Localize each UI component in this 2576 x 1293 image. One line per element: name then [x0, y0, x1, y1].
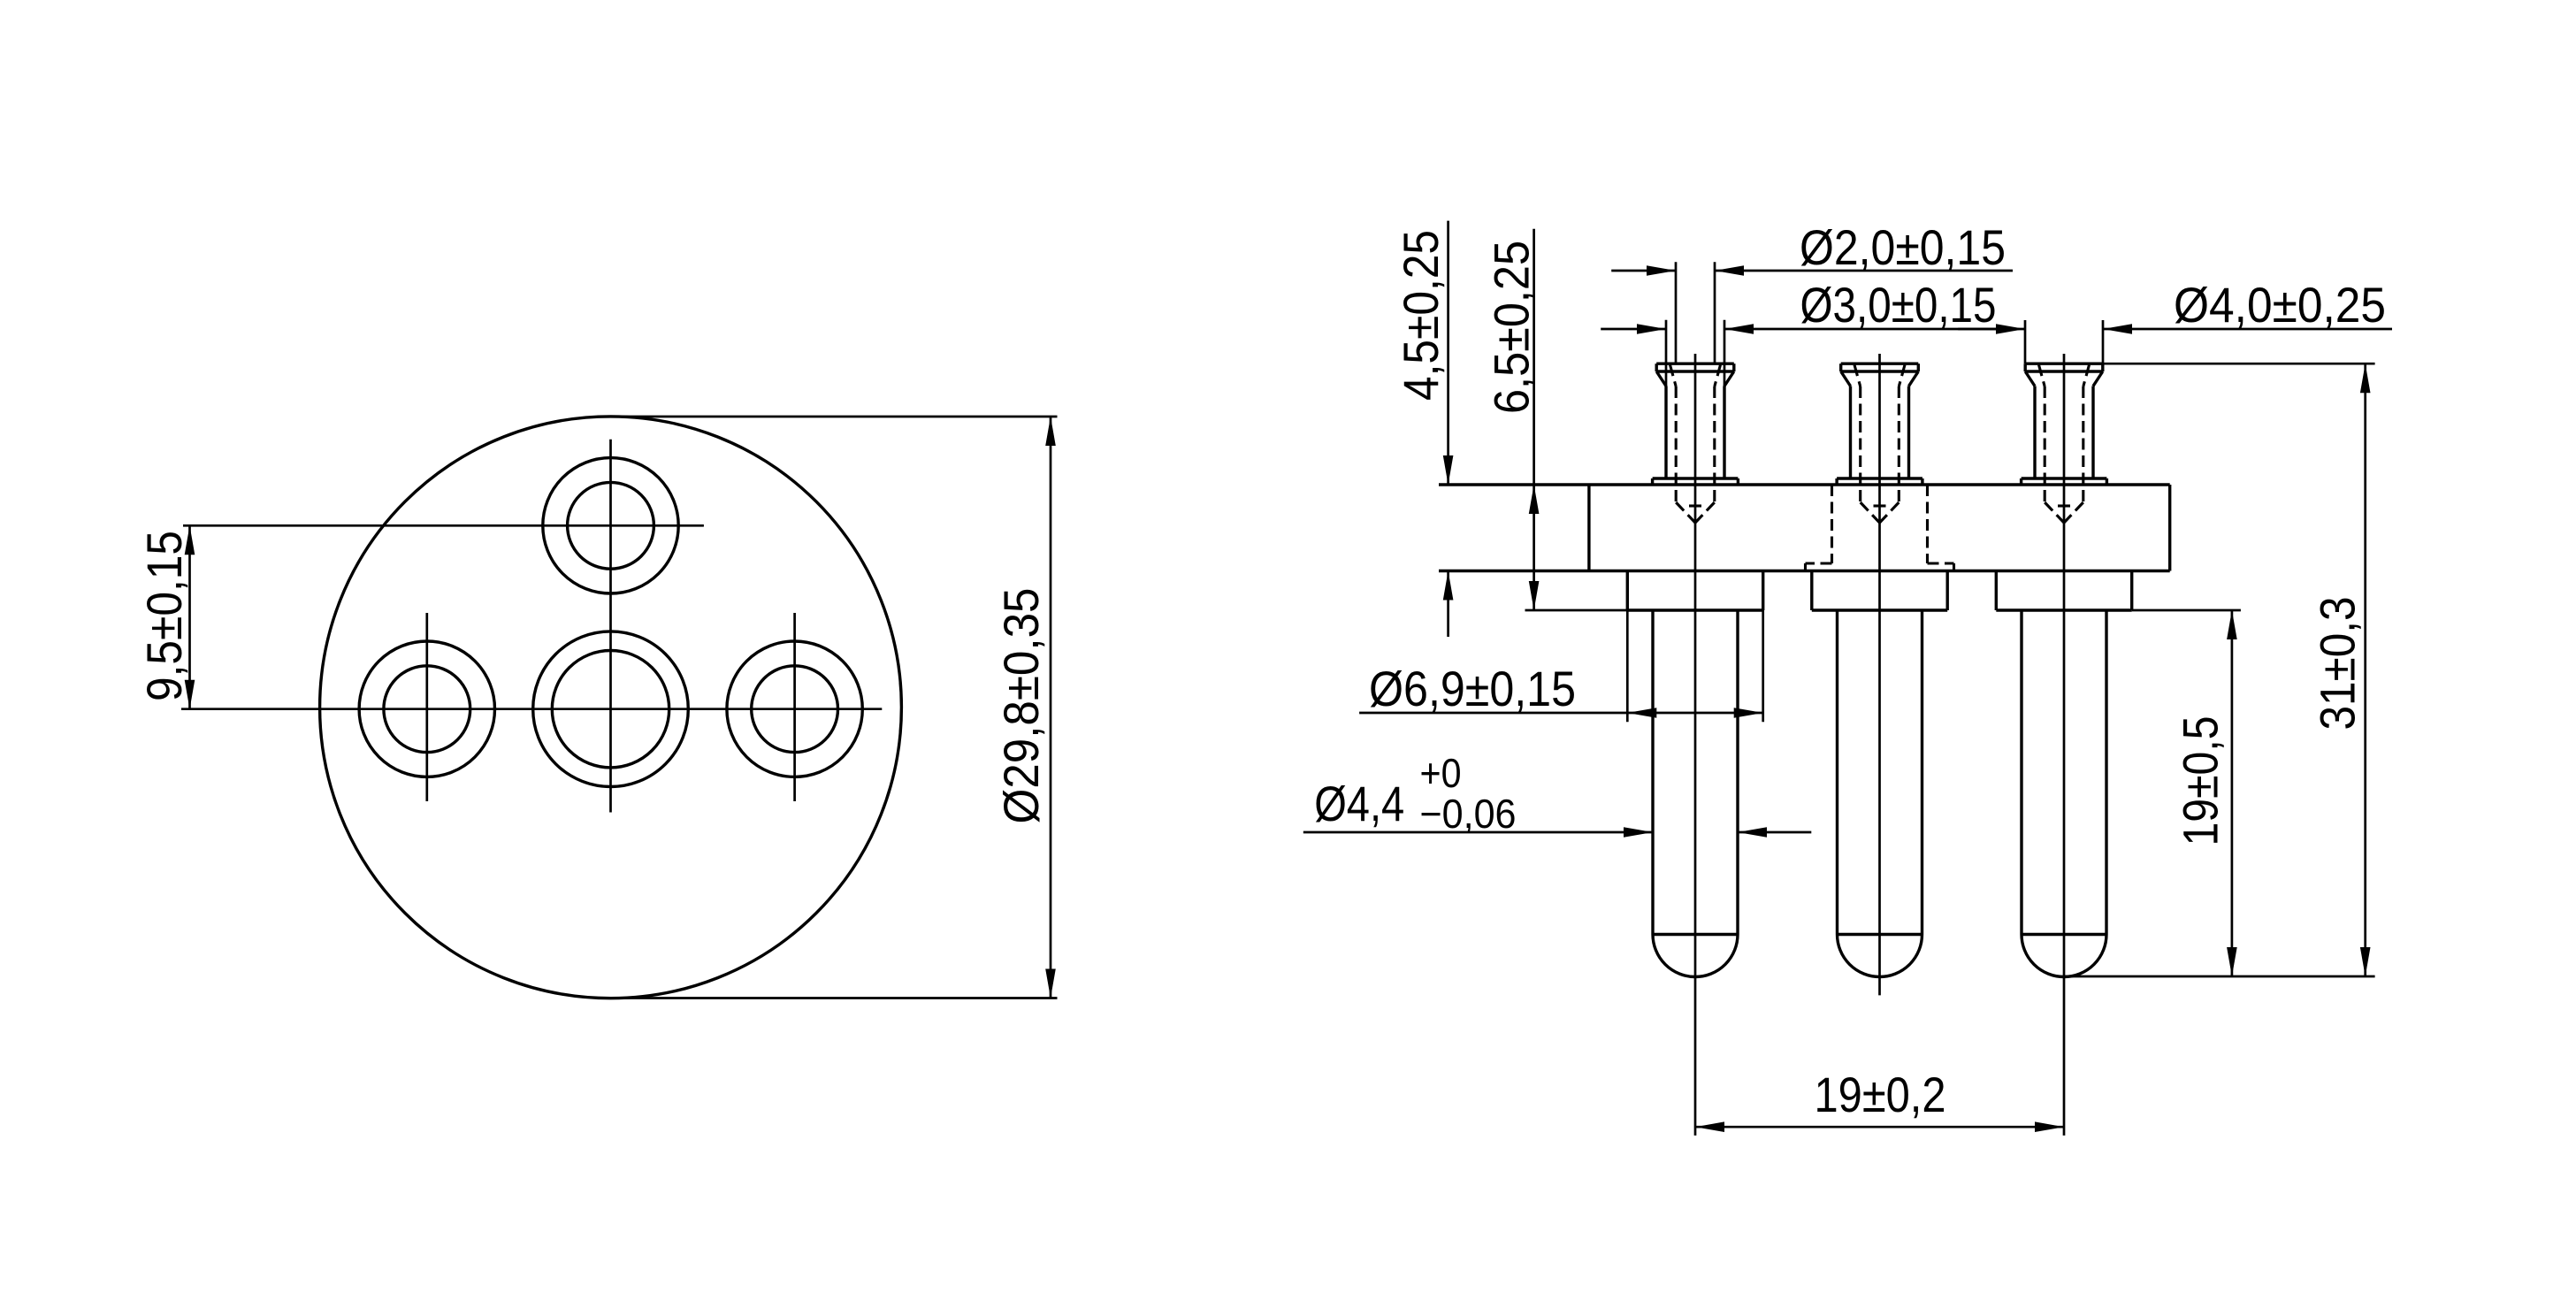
arrow Ø2.0 left	[1647, 265, 1676, 276]
svg-text:19±0,2: 19±0,2	[1815, 1067, 1946, 1122]
dimension line 4.5 lower segment	[1447, 571, 1449, 638]
arrow 19±0.2 right	[2035, 1121, 2064, 1132]
pin 2 upper pin (head, cone, shaft, collar)	[1841, 363, 1919, 365]
extension lines Ø4.0	[2024, 320, 2027, 363]
arrow Ø29.8 top	[1045, 417, 1056, 446]
pin 1 upper pin (head, cone, shaft, collar)	[1656, 363, 1734, 365]
left hole outer circle	[359, 641, 494, 777]
pin 1 shelf boss	[1626, 571, 1629, 611]
pin 3 lower pin body with rounded tip	[2020, 610, 2022, 935]
pin 2 centerline	[1878, 354, 1881, 995]
pin 3 shelf shelf-bottom right extension line	[2132, 609, 2241, 612]
svg-text:Ø2,0±0,15: Ø2,0±0,15	[1800, 219, 2006, 275]
svg-text:Ø4,4: Ø4,4	[1314, 776, 1404, 831]
dimension line Ø29.8±0.35	[1050, 417, 1052, 998]
top hole inner circle	[568, 482, 654, 569]
pin 3 upper pin (head, cone, shaft, collar)	[2025, 363, 2103, 365]
svg-text:Ø3,0±0,15: Ø3,0±0,15	[1800, 277, 1997, 333]
dimension line Ø4.0 left tail	[1958, 328, 2025, 331]
center hole inner circle	[552, 651, 669, 768]
plate left edge	[1587, 485, 1590, 571]
top hole outer circle	[543, 458, 678, 593]
left hole inner circle	[384, 666, 470, 753]
dimension line 19±0.5	[2231, 610, 2234, 976]
dimension line Ø2.0 right tail	[1715, 270, 2013, 272]
svg-text:6,5±0,25: 6,5±0,25	[1483, 241, 1539, 414]
dimension line Ø3.0 left tail	[1601, 328, 1666, 331]
right hole inner circle	[752, 666, 838, 753]
flange outer circle (left view)	[320, 417, 902, 998]
dimension line 4.5 upper segment	[1447, 221, 1449, 485]
right hole vertical centerline	[793, 613, 796, 801]
arrow 19±0.5 top	[2227, 610, 2237, 639]
dimension line 19±0.2	[1695, 1126, 2064, 1129]
pin 1 shelf shelf-bottom left extension line	[1525, 609, 1628, 612]
extension lines Ø3.0	[1665, 320, 1668, 386]
arrow 6.5 at plate top	[1529, 485, 1540, 514]
svg-text:9,5±0,15: 9,5±0,15	[136, 531, 192, 701]
pin 3 centerline	[2063, 354, 2066, 1136]
middle row horizontal centerline / extension for 9.5 dim	[181, 708, 882, 710]
svg-text:31±0,3: 31±0,3	[2309, 597, 2365, 731]
arrow 9.5 top	[185, 525, 195, 555]
arrow Ø29.8 bottom	[1045, 969, 1056, 998]
dimension line 31±0.3	[2364, 363, 2366, 976]
arrow Ø4.0 right	[2103, 324, 2132, 334]
extension line pin head top right	[2103, 363, 2375, 365]
arrow 19±0.2 left	[1695, 1121, 1724, 1132]
extension line circle bottom	[611, 997, 1058, 999]
top hole horizontal centerline / extension for 9.5 dim	[183, 524, 704, 527]
dimension line 9.5±0.15	[188, 525, 191, 708]
right hole outer circle	[727, 641, 862, 777]
arrow 9.5 bottom	[185, 680, 195, 709]
left hole vertical centerline	[425, 613, 428, 801]
pin 3 hidden hole outline (dashed)	[2039, 365, 2045, 387]
dimension line Ø6.9	[1359, 712, 1763, 715]
arrow Ø6.9 right	[1734, 708, 1763, 718]
arrow Ø4.4 left	[1624, 827, 1653, 838]
pin 1 centerline	[1694, 354, 1697, 1136]
dimension line Ø2.0 left tail	[1611, 270, 1676, 272]
arrow Ø2.0 right	[1715, 265, 1744, 276]
extension lines Ø2.0	[1675, 262, 1678, 363]
dimension line Ø4.4 right tail	[1738, 831, 1811, 834]
arrow Ø4.4 right	[1738, 827, 1767, 838]
svg-text:−0,06: −0,06	[1420, 791, 1517, 837]
arrow Ø6.9 left	[1627, 708, 1656, 718]
plate top line with left extension	[1439, 483, 2170, 486]
svg-text:+0: +0	[1420, 750, 1462, 796]
plate right edge	[2168, 485, 2171, 571]
svg-text:Ø4,0±0,25: Ø4,0±0,25	[2174, 277, 2386, 333]
svg-text:4,5±0,25: 4,5±0,25	[1393, 230, 1449, 401]
arrow 31 bottom	[2360, 947, 2371, 976]
arrow 6.5 at shelf bottom	[1529, 581, 1540, 610]
arrow Ø4.0 left	[1996, 324, 2025, 334]
extension line circle top	[611, 416, 1058, 418]
svg-text:Ø6,9±0,15: Ø6,9±0,15	[1369, 661, 1576, 716]
extension lines Ø6.9	[1626, 610, 1629, 722]
pin 2 hidden hole outline (dashed)	[1854, 365, 1861, 387]
arrow 4.5 at plate bottom	[1443, 571, 1454, 601]
pin 1 hidden hole outline (dashed)	[1670, 365, 1677, 387]
dimension line Ø4.4 left tail	[1303, 831, 1653, 834]
arrow Ø3.0 right	[1724, 324, 1754, 334]
pin 3 shelf boss	[1995, 571, 1998, 611]
extension line pin bottom right	[2064, 975, 2375, 978]
dimension line Ø4.0 right tail	[2103, 328, 2392, 331]
arrow 31 top	[2360, 363, 2371, 393]
svg-text:Ø29,8±0,35: Ø29,8±0,35	[993, 588, 1049, 824]
arrow 19±0.5 bottom	[2227, 947, 2237, 976]
dimension line 6.5	[1533, 229, 1535, 610]
svg-text:19±0,5: 19±0,5	[2173, 716, 2228, 846]
dimension line Ø3.0 right tail	[1724, 328, 1997, 331]
pin 2 hidden flange outline in plate (dashed)	[1831, 485, 1833, 563]
arrow 4.5 at plate top	[1443, 455, 1454, 485]
vertical centerline through top and center holes	[609, 440, 612, 813]
plate bottom line with left extension	[1439, 570, 2170, 572]
pin 2 lower pin body with rounded tip	[1836, 610, 1838, 935]
arrow Ø3.0 left	[1637, 324, 1666, 334]
pin 2 shelf boss	[1810, 571, 1813, 611]
center hole outer circle	[533, 631, 689, 787]
pin 1 lower pin body with rounded tip	[1651, 610, 1654, 935]
